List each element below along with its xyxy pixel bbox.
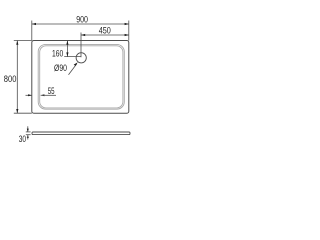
dim 55 tail left [26, 94, 32, 96]
dim 450 line [81, 34, 129, 36]
dim 30 tick top [26, 131, 31, 133]
tray outer rect (plan view) [32, 41, 129, 114]
dim 450 arrow right [125, 34, 129, 36]
centerline vertical [80, 33, 82, 58]
basin outer rounded rect [38, 44, 124, 109]
drain leader arrow [74, 62, 78, 66]
dim 800 extension line top [14, 40, 32, 42]
dim 55 arrow right [41, 94, 45, 96]
dim 900 extension line right [128, 21, 130, 41]
svg-text:Ø90: Ø90 [54, 63, 67, 74]
dim 160 line [66, 41, 68, 57]
dim 900 extension line left [31, 21, 33, 41]
dim 800 extension line bottom [14, 112, 32, 114]
side view bar [32, 132, 130, 135]
drain circle [76, 53, 86, 63]
dim 55 tail right [41, 94, 56, 96]
dim 30 arrow down [27, 129, 29, 132]
dim 55 arrow left [28, 94, 32, 96]
dim 30 arrow up [27, 135, 29, 138]
drain label leader [69, 64, 77, 75]
dim 800 arrow bottom [16, 109, 18, 113]
svg-text:450: 450 [99, 26, 111, 37]
dim 160 arrow bottom [66, 52, 68, 56]
dim 800 line [16, 41, 18, 114]
dim 800 arrow top [16, 41, 18, 45]
dim 30 tick bottom [26, 134, 31, 136]
svg-text:160: 160 [52, 49, 63, 60]
dim 900 arrow left [32, 23, 36, 25]
dim 30 line lower [27, 135, 29, 140]
dim 450 arrow left [81, 34, 85, 36]
dim 160 arrow top [66, 41, 68, 45]
svg-text:800: 800 [4, 74, 17, 85]
centerline horizontal [64, 56, 81, 58]
dim 30 line upper [27, 126, 29, 132]
dim 900 arrow right [125, 23, 129, 25]
dim 900 line [32, 23, 129, 25]
svg-text:30: 30 [19, 134, 26, 145]
svg-text:55: 55 [48, 86, 55, 97]
basin inner rounded rect [40, 46, 123, 108]
svg-text:900: 900 [76, 14, 88, 25]
